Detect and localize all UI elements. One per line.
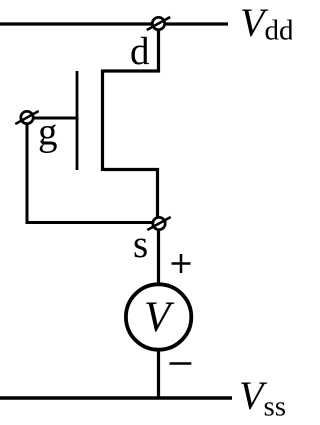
- wire Vss rail: [0, 396, 232, 399]
- minus sign of voltage source: [170, 362, 192, 365]
- transistor M1 channel bar: [101, 70, 104, 172]
- terminal d (drain): [147, 17, 170, 30]
- svg-text:g: g: [38, 111, 58, 154]
- terminal g (gate): [15, 111, 38, 124]
- wire gate to source loop: [27, 118, 159, 223]
- wire drain vertical from Vdd terminal: [103, 24, 159, 71]
- voltage source U1 circle: [126, 284, 191, 349]
- wire source of transistor down to s terminal: [103, 170, 158, 225]
- terminal s (source): [147, 217, 170, 230]
- wire s terminal to voltage source: [157, 224, 160, 290]
- transistor M1 gate bar: [76, 71, 79, 170]
- wire gate lead: [27, 117, 78, 120]
- wire voltage source to Vss rail: [157, 345, 160, 399]
- wire Vdd rail: [0, 22, 228, 25]
- svg-text:d: d: [130, 30, 150, 73]
- plus sign of voltage source: [172, 254, 191, 273]
- svg-text:s: s: [133, 223, 148, 266]
